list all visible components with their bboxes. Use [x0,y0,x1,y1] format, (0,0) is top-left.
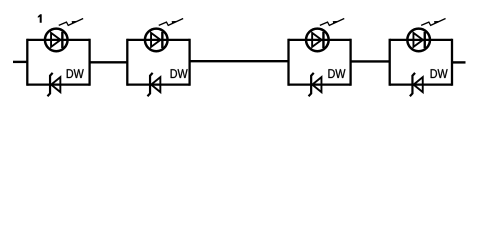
LED 1 circle envelope [45,29,68,52]
wire: cell 1 left vertical joining branches [26,39,28,86]
zener diode DW (cell 2) cathode bar with bent ends [147,73,152,96]
wire: series link cell 2 to cell 3 [190,60,289,62]
zener diode DW (cell 3) cathode bar with bent ends [309,73,314,96]
LED 4 circle envelope [407,29,430,52]
value label DW (cell 3) [328,69,345,78]
LED 4 cathode bar [424,32,426,48]
wire: cell 2 left vertical joining branches [126,39,128,86]
LED 4 light-emission flash arrow [421,19,445,26]
wire: cell 3 left vertical joining branches [287,39,289,86]
wire: cell 3 bottom branch [289,83,351,85]
wire: cell 4 bottom branch [390,83,452,85]
wire: cell 3 top branch [289,39,351,41]
wire: cell 2 right vertical joining branches [188,39,190,86]
wire: series link cell 3 to cell 4 [351,60,390,62]
wire: cell 1 top branch [27,39,89,41]
zener diode DW (cell 1) triangle anode pointing left [51,77,60,92]
LED 1 light-emission flash arrow [59,19,83,26]
wire: cell 4 left vertical joining branches [389,39,391,86]
LED 3 cathode bar [322,32,324,48]
wire: cell 3 right vertical joining branches [349,39,351,86]
LED 3 circle envelope [306,29,329,52]
LED 2 triangle anode [151,33,161,47]
zener diode DW (cell 1) cathode bar with bent ends [47,73,52,96]
wire: cell 1 right vertical joining branches [88,39,90,86]
wire: cell 2 bottom branch [127,83,189,85]
zener diode DW (cell 2) triangle anode pointing left [151,77,160,92]
LED 2 light-emission flash arrow [159,19,183,26]
label "1" on first LED cell [38,14,42,22]
value label DW (cell 4) [431,69,448,78]
LED 1 triangle anode [51,33,61,47]
right terminal wire [452,61,466,63]
wire: series link cell 1 to cell 2 [90,61,128,63]
wire: cell 4 right vertical joining branches [451,39,453,86]
zener diode DW (cell 4) triangle anode pointing left [414,77,423,92]
wire: cell 1 bottom branch [27,83,89,85]
value label DW (cell 1) [67,69,84,78]
LED 1 cathode bar [61,32,63,48]
LED 3 triangle anode [312,33,322,47]
LED 4 triangle anode [413,33,423,47]
LED 3 light-emission flash arrow [320,19,344,26]
value label DW (cell 2) [171,69,188,78]
zener diode DW (cell 3) triangle anode pointing left [312,77,321,92]
zener diode DW (cell 4) cathode bar with bent ends [410,73,415,96]
left terminal wire [13,61,27,63]
wire: cell 4 top branch [390,39,452,41]
wire: cell 2 top branch [127,39,189,41]
LED 2 circle envelope [145,29,168,52]
LED 2 cathode bar [161,32,163,48]
